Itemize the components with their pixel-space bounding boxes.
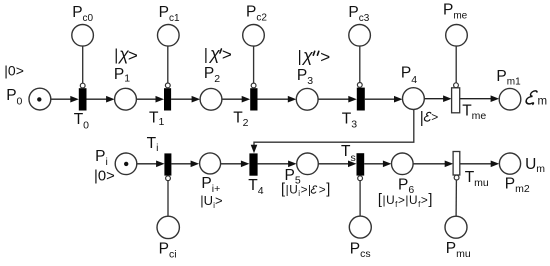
svg-text:>: >	[431, 110, 438, 124]
svg-text:|: |	[298, 49, 302, 66]
svg-text:χ: χ	[208, 43, 220, 63]
svg-text:|: |	[420, 109, 424, 126]
svg-text:|0>: |0>	[4, 63, 24, 79]
svg-text:|: |	[204, 46, 208, 63]
svg-text:[|Ui>|: [|Ui>|	[281, 182, 312, 199]
svg-text:|0>: |0>	[94, 169, 115, 185]
svg-text:|Ui>: |Ui>	[200, 193, 222, 210]
svg-text:>]: >]	[319, 182, 331, 198]
svg-text:[|Uf>|Uf>]: [|Uf>|Uf>]	[378, 192, 433, 209]
svg-text:>: >	[222, 45, 232, 64]
svg-text:m: m	[538, 95, 548, 107]
svg-text:>: >	[320, 47, 330, 66]
svg-text:>: >	[128, 46, 138, 65]
svg-text:|: |	[114, 47, 118, 64]
svg-text:χ: χ	[301, 46, 313, 66]
